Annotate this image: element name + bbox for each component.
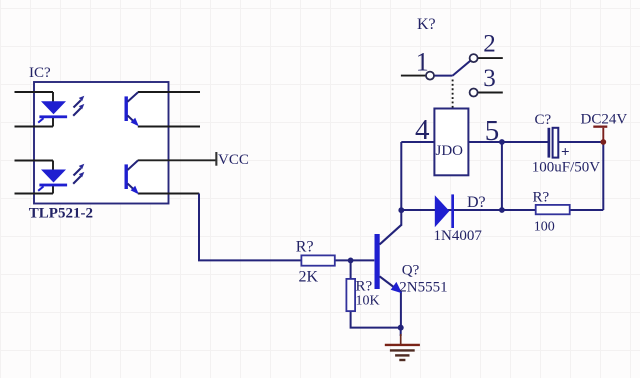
- svg-text:2N5551: 2N5551: [399, 280, 447, 296]
- svg-text:10K: 10K: [356, 293, 380, 308]
- svg-text:R?: R?: [533, 189, 550, 205]
- svg-text:R?: R?: [296, 238, 314, 255]
- svg-text:Q?: Q?: [402, 263, 420, 279]
- svg-text:C?: C?: [535, 112, 552, 128]
- svg-text:VCC: VCC: [218, 152, 249, 168]
- svg-text:1N4007: 1N4007: [434, 228, 483, 244]
- svg-text:2: 2: [483, 31, 496, 58]
- svg-text:4: 4: [415, 114, 430, 146]
- svg-text:JDO: JDO: [436, 143, 464, 159]
- svg-text:D?: D?: [467, 194, 486, 211]
- svg-text:DC24V: DC24V: [581, 112, 628, 128]
- svg-text:100: 100: [534, 220, 555, 235]
- svg-text:2K: 2K: [299, 268, 319, 285]
- svg-text:100uF/50V: 100uF/50V: [532, 159, 601, 175]
- svg-text:5: 5: [485, 115, 500, 147]
- svg-text:R?: R?: [356, 278, 373, 294]
- svg-text:K?: K?: [417, 16, 436, 33]
- svg-text:TLP521-2: TLP521-2: [29, 206, 93, 222]
- svg-text:3: 3: [483, 65, 496, 92]
- svg-text:IC?: IC?: [29, 65, 51, 81]
- svg-text:+: +: [561, 145, 570, 161]
- svg-text:1: 1: [416, 48, 429, 77]
